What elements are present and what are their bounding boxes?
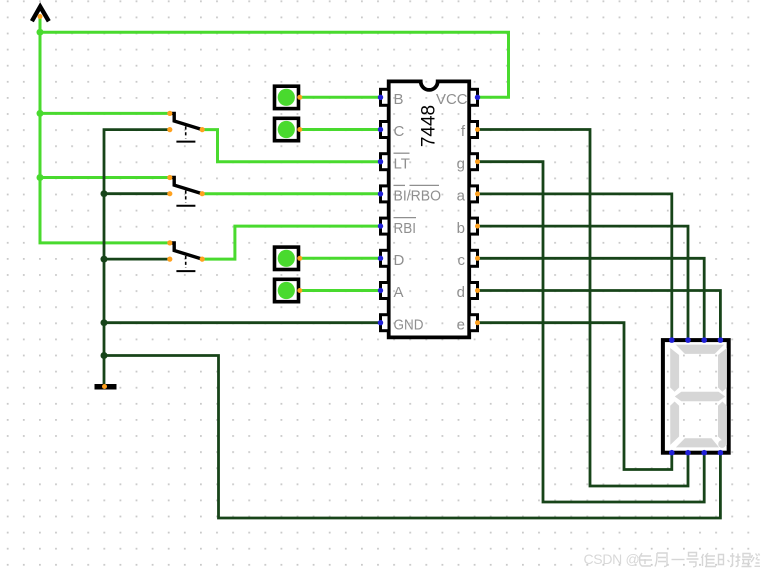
svg-text:CSDN @: CSDN @ [584,551,640,567]
wire ground rail to switch S2 [104,192,170,195]
svg-text:VCC: VCC [436,91,468,108]
ground symbol [95,384,117,390]
IC U1 left pin boxes [381,89,390,330]
svg-text:GND: GND [394,316,424,333]
摆 [736,554,752,567]
IC U1 VCC pin terminal (blue) [475,95,480,100]
junction VCC rail / S2 feed [37,174,44,181]
junction ground rail / display common branch [101,352,108,359]
IC U1 right pin boxes [469,89,478,330]
junction ground rail / S3 branch [101,256,108,263]
svg-text:LT: LT [394,155,410,172]
IC U1 pin labels left [394,91,442,333]
wire b pin to display [478,226,689,340]
wire a pin to display [478,194,672,340]
segment G [675,392,725,402]
wire probe P2 to C pin [300,128,381,131]
svg-text:A: A [394,284,404,301]
svg-text:BI/RBO: BI/RBO [394,188,442,205]
IC U1 segment output terminals (orange) [475,127,480,325]
segment E [670,402,679,445]
svg-text:B: B [394,91,404,108]
segment C [718,402,727,445]
wire switch S2 output to BI/RBO pin [202,192,380,195]
VCC power arrow [32,7,49,22]
IC U1 pin label overlines [394,153,440,217]
switch S1 [167,111,205,142]
svg-text:C: C [394,123,405,140]
LED probe P3 [275,247,303,269]
7-segment display DS1 [663,337,729,455]
junction VCC rail / S1 feed [37,110,44,117]
每 [639,553,652,566]
svg-text:RBI: RBI [394,220,417,237]
wire probe P3 to D pin [300,257,381,260]
svg-text:e: e [457,316,465,333]
junction VCC rail / top rail [37,29,44,36]
准 [702,553,717,567]
wire ground to GND pin [104,321,381,324]
月 [655,553,667,567]
号 [687,553,699,567]
wire switch S1 output to LT pin [202,130,380,162]
wire switch S3 output to RBI pin [202,226,380,259]
IC U1 pin labels right [436,91,468,333]
烂 [751,554,760,567]
junction ground rail / S2 branch [101,190,108,197]
wire ground vertical rail from switch S1 to ground symbol [104,130,170,385]
decimal point [718,440,726,448]
wire d pin to display [478,291,721,341]
wire VCC vertical rail to switch S3 [40,17,170,243]
junction ground rail / GND pin branch [101,319,108,326]
segment F [670,348,679,392]
svg-text:D: D [394,252,405,269]
svg-text:g: g [457,155,465,172]
wire g pin to display [478,162,705,502]
wire probe P1 to B pin [300,96,381,99]
wire c pin to display [478,258,705,340]
一 [672,559,685,561]
svg-text:d: d [457,284,465,301]
svg-text:c: c [458,252,466,269]
wire VCC top rail to VCC pin [40,32,509,97]
svg-text:b: b [457,220,465,237]
wire ground rail to switch S3 [104,258,170,261]
wire e pin to display [478,323,672,470]
LED probe P2 [275,118,303,140]
switch S3 [167,240,205,271]
segment B [718,348,727,392]
wire VCC rail to switch S2 [40,176,170,179]
IC U1 7448 body [389,81,470,337]
segment A [676,345,724,354]
wire f pin to display [478,130,689,487]
svg-text:a: a [457,188,466,205]
wire ground to display common [104,356,720,519]
IC U1 left pin terminals (blue) [378,95,383,326]
时 [719,553,735,567]
segment D [676,438,719,447]
wire VCC rail to switch S1 [40,112,170,115]
switch S2 [167,175,205,206]
svg-text:7448: 7448 [419,105,440,147]
display terminals (blue) [669,337,723,455]
LED probe P4 [275,279,303,301]
wire probe P4 to A pin [300,289,381,292]
LED probe P1 [275,86,303,108]
